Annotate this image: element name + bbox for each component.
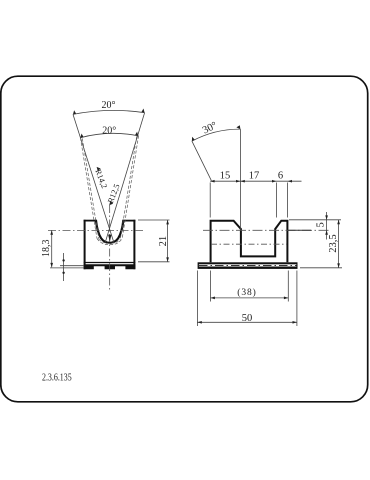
svg-text:23,5: 23,5 [328,234,339,252]
svg-text:18,3: 18,3 [41,240,52,258]
svg-text:21: 21 [158,236,169,247]
svg-text:17: 17 [249,170,260,181]
svg-text:20°: 20° [102,125,116,136]
svg-text:(38): (38) [237,287,256,298]
svg-text:15: 15 [220,170,231,181]
svg-text:6: 6 [278,170,283,181]
svg-text:50: 50 [242,313,253,324]
svg-text:2.3.6.135: 2.3.6.135 [42,371,72,384]
svg-text:20°: 20° [102,100,116,111]
svg-text:5: 5 [316,222,327,227]
